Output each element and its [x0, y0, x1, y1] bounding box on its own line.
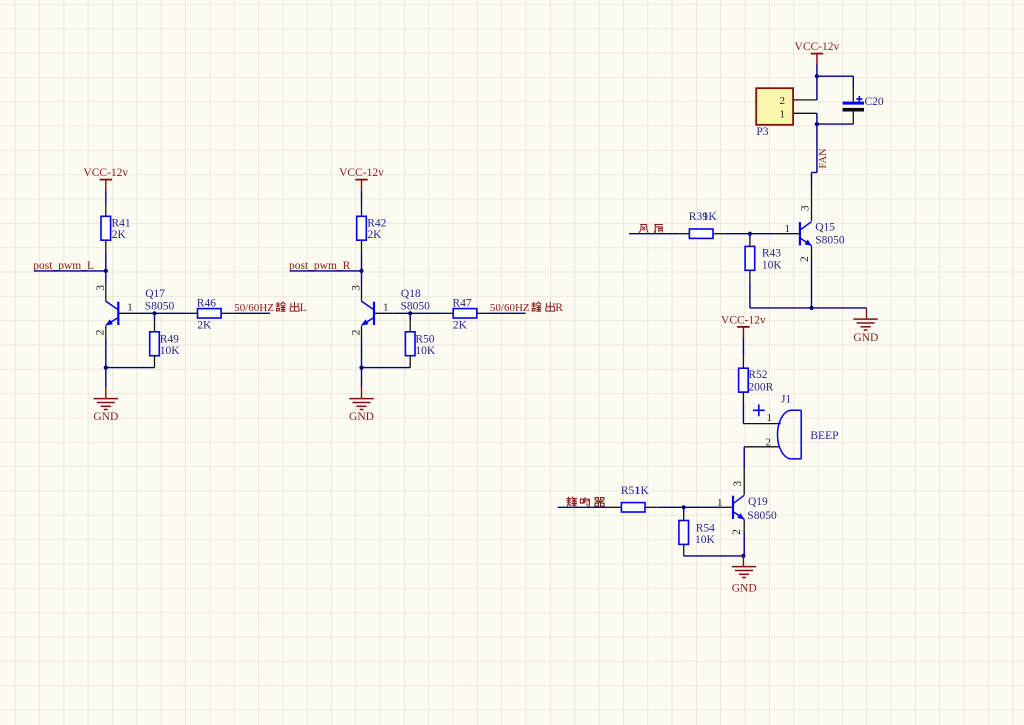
wire 蜂鸣器 input: [558, 506, 622, 508]
svg-text:VCC-12v: VCC-12v: [339, 167, 384, 179]
pin 2 of Q17: [95, 326, 107, 368]
power VCC-12v (Q17 circuit): [83, 167, 128, 191]
wire R49 to emitter rail: [106, 356, 155, 368]
svg-text:2K: 2K: [453, 319, 468, 331]
wire VCC to node: [816, 65, 818, 77]
svg-text:Q18: Q18: [401, 288, 421, 300]
svg-text:2K: 2K: [197, 319, 212, 331]
wire FAN: [812, 124, 817, 185]
net label 蜂鸣器: [567, 497, 604, 506]
wire VCC node to C20 branch: [817, 76, 853, 88]
transistor Q18 S8050: [361, 288, 430, 325]
svg-text:3: 3: [800, 205, 812, 211]
svg-text:S8050: S8050: [145, 301, 175, 313]
wire R52 to buzzer pin 1: [743, 392, 780, 424]
node Q19 emitter junction: [741, 554, 745, 558]
node base junction: [408, 311, 412, 315]
wire 风扇 input: [629, 233, 689, 235]
svg-text:1: 1: [717, 497, 723, 509]
resistor R52 200R: [739, 368, 774, 394]
net label 50/60HZ output L: [234, 302, 306, 314]
wire R50 to emitter rail: [362, 356, 411, 368]
svg-text:R54: R54: [696, 523, 715, 535]
svg-text:1: 1: [766, 412, 772, 424]
net label FAN: [818, 148, 829, 169]
wire VCC to R42: [361, 191, 363, 216]
power VCC-12v (fan circuit): [795, 41, 840, 65]
svg-text:1K: 1K: [703, 211, 718, 223]
svg-text:R52: R52: [748, 369, 767, 381]
svg-text:1: 1: [785, 223, 791, 235]
svg-text:Q19: Q19: [748, 496, 768, 508]
ground GND (Q17 circuit): [93, 368, 118, 424]
wire VCC to R41: [105, 191, 107, 216]
svg-text:BEEP: BEEP: [810, 430, 838, 442]
svg-text:50/60HZ: 50/60HZ: [490, 302, 530, 314]
svg-text:S8050: S8050: [815, 234, 845, 246]
pin 1 of P3: [780, 109, 817, 121]
pin 1 of Q15: [750, 223, 799, 235]
resistor R43 10K: [745, 246, 782, 271]
wire R54 to emitter rail: [684, 544, 744, 556]
wire R43 to emitter rail: [750, 270, 867, 308]
wire base to R50: [409, 313, 411, 332]
ground GND (beeper circuit): [732, 556, 757, 594]
svg-text:GND: GND: [732, 582, 757, 594]
svg-text:2: 2: [95, 329, 107, 335]
transistor Q19 S8050: [733, 495, 777, 522]
wire base to R43: [749, 234, 751, 247]
wire R47 to output: [477, 312, 526, 314]
pin 1 of Q17: [119, 301, 154, 313]
svg-text:Q15: Q15: [815, 222, 835, 234]
pin 3 of Q15: [800, 185, 812, 221]
resistor R50 10K: [405, 332, 436, 357]
svg-text:10K: 10K: [762, 259, 783, 271]
svg-text:1K: 1K: [635, 485, 650, 497]
resistor R46 2K: [197, 298, 221, 332]
svg-text:VCC-12v: VCC-12v: [721, 314, 766, 326]
ground GND (fan circuit): [853, 308, 878, 344]
capacitor C20: [843, 96, 884, 112]
resistor R41 2K: [101, 216, 131, 241]
svg-text:R41: R41: [112, 217, 131, 229]
svg-text:1: 1: [383, 301, 389, 313]
svg-text:VCC-12v: VCC-12v: [83, 167, 128, 179]
pin 1 of Q18: [375, 301, 410, 313]
node post_pwm_L junction: [104, 269, 108, 273]
wire R51 to base: [646, 506, 684, 508]
transistor Q15 S8050: [800, 222, 845, 247]
svg-text:2: 2: [799, 256, 811, 262]
svg-text:R46: R46: [197, 298, 216, 310]
power VCC-12v (beeper circuit): [721, 314, 766, 338]
pin 2 of J1: [765, 437, 771, 449]
svg-text:3: 3: [351, 285, 363, 291]
node base junction: [152, 311, 156, 315]
svg-text:10K: 10K: [695, 534, 716, 546]
power VCC-12v (Q18 circuit): [339, 167, 384, 191]
svg-text:R47: R47: [453, 298, 472, 310]
svg-text:P3: P3: [756, 126, 768, 138]
svg-text:Q17: Q17: [145, 288, 165, 300]
pin 3 of Q19: [732, 469, 744, 495]
wire P3 pin 1 to FAN node: [816, 113, 818, 124]
pin - of C20: [852, 112, 854, 125]
pin 2 of Q15: [799, 246, 812, 308]
svg-text:3: 3: [732, 481, 744, 487]
wire base to R47: [410, 312, 453, 314]
resistor R47 2K: [453, 298, 477, 332]
wire buzzer pin 2 to Q19 collector: [744, 447, 779, 470]
node post_pwm_R junction: [359, 269, 363, 273]
wire post_pwm_L: [34, 270, 106, 272]
svg-text:S8050: S8050: [401, 301, 431, 313]
node emitter junction: [359, 366, 363, 370]
resistor R49 10K: [150, 332, 181, 357]
net label post_pwm_L: [33, 260, 94, 272]
wire R39 to base: [714, 233, 750, 235]
node Q19 base junction: [682, 505, 686, 509]
svg-text:2: 2: [350, 329, 362, 335]
svg-text:GND: GND: [93, 411, 118, 423]
svg-text:2K: 2K: [112, 229, 127, 241]
transistor Q17 S8050: [105, 288, 174, 325]
svg-text:10K: 10K: [160, 345, 181, 357]
wire VCC to R52: [742, 338, 744, 368]
svg-text:R49: R49: [160, 334, 179, 346]
resistor R54 10K: [679, 521, 716, 547]
svg-text:200R: 200R: [748, 382, 773, 394]
wire base to R54: [683, 507, 685, 520]
wire base to R49: [154, 313, 156, 332]
resistor R39 1K: [689, 211, 718, 238]
pin 2 of P3: [780, 95, 817, 107]
svg-text:VCC-12v: VCC-12v: [795, 41, 840, 53]
connector P3: [756, 88, 793, 138]
svg-text:C20: C20: [865, 96, 884, 108]
polarity + of J1: [753, 404, 765, 416]
node Q15 emitter junction: [809, 306, 813, 310]
wire R46 to output: [221, 312, 270, 314]
pin + of C20: [852, 88, 854, 102]
svg-text:R42: R42: [367, 217, 386, 229]
pin 3 of Q17: [95, 271, 107, 302]
node FAN junction: [815, 122, 819, 126]
svg-text:J1: J1: [781, 394, 791, 406]
svg-text:R43: R43: [762, 247, 781, 259]
node VCC junction: [815, 74, 819, 78]
svg-text:2K: 2K: [367, 229, 382, 241]
node Q15 base junction: [748, 232, 752, 236]
buzzer J1: [777, 394, 801, 460]
svg-text:GND: GND: [853, 332, 878, 344]
net label 风扇: [639, 225, 662, 233]
net label BEEP: [810, 430, 838, 442]
svg-text:10K: 10K: [415, 345, 436, 357]
pin 1 of J1: [766, 412, 772, 424]
pin 2 of Q19: [731, 520, 744, 556]
svg-text:L: L: [300, 302, 307, 314]
svg-text:2: 2: [780, 95, 786, 107]
svg-text:50/60HZ: 50/60HZ: [234, 302, 274, 314]
wire VCC node to P3 pin 2: [816, 76, 818, 100]
svg-text:3: 3: [95, 285, 107, 291]
node emitter junction: [104, 366, 108, 370]
wire R42 to node: [361, 240, 363, 271]
svg-text:GND: GND: [349, 411, 374, 423]
svg-text:1: 1: [780, 109, 786, 121]
resistor R42 2K: [357, 216, 387, 241]
net label post_pwm_R: [289, 260, 351, 272]
pin 2 of Q18: [350, 326, 362, 368]
svg-text:1: 1: [127, 301, 133, 313]
svg-text:FAN: FAN: [818, 148, 829, 169]
svg-text:2: 2: [731, 529, 743, 535]
pin 3 of Q18: [351, 271, 363, 302]
resistor R51 1K: [621, 485, 650, 512]
wire post_pwm_R: [290, 270, 362, 272]
ground GND (Q18 circuit): [349, 368, 374, 424]
svg-text:R: R: [555, 302, 563, 314]
net label 50/60HZ output R: [490, 302, 563, 314]
wire R41 to node: [105, 240, 107, 271]
svg-text:S8050: S8050: [747, 510, 777, 522]
svg-text:R50: R50: [415, 334, 434, 346]
pin 1 of Q19: [684, 497, 732, 509]
wire C20 to FAN node: [817, 123, 853, 125]
wire base to R46: [155, 312, 198, 314]
